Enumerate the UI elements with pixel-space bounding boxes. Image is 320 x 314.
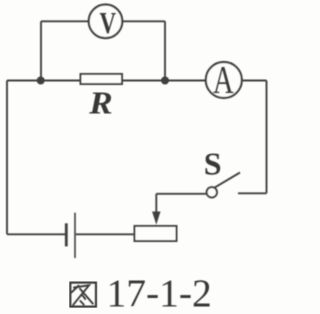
caption hanzi TU (drawn): [70, 283, 96, 307]
svg-text:R: R: [88, 86, 113, 121]
rheostat RP box: [135, 226, 177, 241]
wire ammeter to right corner: [243, 80, 267, 82]
svg-text:S: S: [204, 145, 222, 181]
svg-text:17-1-2: 17-1-2: [107, 271, 212, 314]
node junction right (dot): [161, 77, 169, 85]
wire main horizontal left of resistor: [7, 80, 81, 82]
wire switch to wiper corner: [156, 193, 206, 195]
wire right vertical: [266, 81, 268, 194]
wire top-right segment: [123, 20, 165, 22]
battery BT positive plate (long thin): [74, 213, 76, 258]
wire outer left vertical: [6, 81, 8, 235]
switch S blade: [213, 173, 240, 189]
switch S pivot circle: [207, 187, 217, 197]
svg-text:A: A: [213, 58, 234, 101]
svg-text:V: V: [99, 6, 116, 40]
node junction left (dot): [37, 77, 45, 85]
wire switch fixed side horizontal: [238, 192, 267, 194]
wire battery to rheostat: [76, 233, 135, 235]
rheostat wiper arrowhead: [152, 212, 160, 225]
wire bottom left to battery: [7, 233, 65, 235]
wire right vertical of voltmeter loop: [164, 21, 166, 80]
ammeter U2 circle: [206, 62, 242, 98]
wire top-left segment: [41, 20, 88, 22]
wire resistor to ammeter: [122, 80, 205, 82]
voltmeter U1 circle: [89, 5, 123, 39]
resistor R1 box: [81, 74, 123, 84]
rheostat wiper arrow shaft: [155, 194, 157, 213]
wire left vertical of voltmeter loop: [40, 21, 42, 80]
battery BT negative plate (short thick): [65, 223, 68, 246]
